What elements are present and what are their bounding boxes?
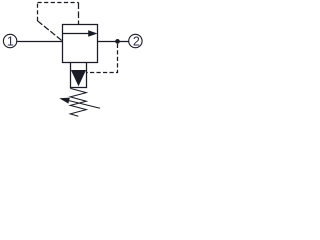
port 1 circle (3, 34, 16, 47)
pilot diagonal dashed line (38, 21, 63, 41)
poppet channel right wall (86, 63, 88, 88)
pilot dashed vertical to valve top (78, 3, 80, 25)
spring zigzag (70, 88, 86, 116)
junction dot (115, 39, 120, 44)
poppet channel left wall (70, 63, 72, 88)
adjustment arrow head (59, 98, 70, 104)
svg-text:2: 2 (133, 35, 140, 49)
poppet seat bottom line (70, 87, 87, 89)
svg-text:1: 1 (7, 35, 14, 49)
pilot dashed box top horizontal (38, 2, 79, 4)
port 2 wire (98, 41, 129, 43)
drain dashed line (down then left) (87, 44, 118, 73)
pilot dashed box left vertical (37, 3, 39, 22)
valve envelope (body square) (63, 25, 98, 63)
poppet (filled triangle) (71, 70, 86, 86)
adjustment arrow shaft (68, 100, 101, 108)
port 2 circle (129, 34, 142, 47)
flow arrow shaft (63, 33, 90, 35)
flow arrow head (88, 30, 97, 36)
port 1 wire (17, 41, 62, 43)
